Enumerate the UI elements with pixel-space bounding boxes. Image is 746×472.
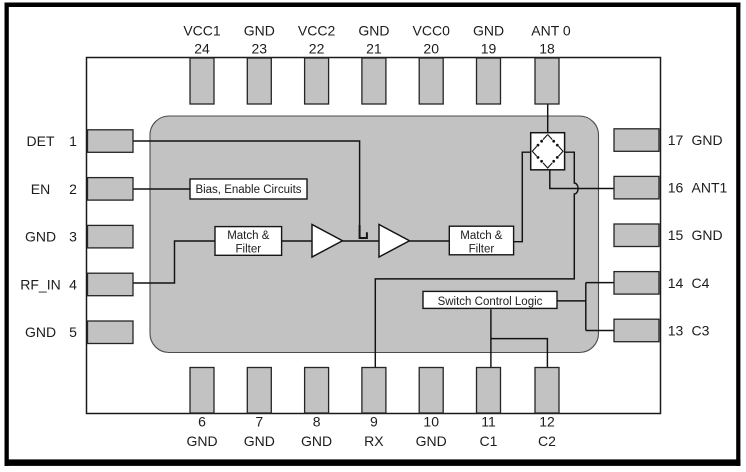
svg-text:23: 23 xyxy=(252,41,268,57)
svg-text:Match &: Match & xyxy=(227,230,270,242)
pin 10 (GND) xyxy=(416,368,447,450)
svg-text:GND: GND xyxy=(25,324,56,340)
svg-text:C3: C3 xyxy=(692,322,710,338)
svg-text:20: 20 xyxy=(423,41,439,57)
svg-text:C2: C2 xyxy=(538,433,556,449)
pin 11 (C1) xyxy=(477,368,501,450)
svg-text:19: 19 xyxy=(481,41,497,57)
svg-text:10: 10 xyxy=(423,414,439,430)
wire: EN pin2 to bias block xyxy=(134,188,191,190)
svg-text:GND: GND xyxy=(244,433,275,449)
svg-text:3: 3 xyxy=(69,229,77,245)
wire: ANT0 pin18 to switch top port xyxy=(547,105,549,133)
wire: branch to pin 12 xyxy=(491,339,548,368)
svg-text:Filter: Filter xyxy=(469,243,495,255)
svg-text:GND: GND xyxy=(25,229,56,245)
svg-text:RF_IN: RF_IN xyxy=(20,276,60,292)
svg-text:ANT1: ANT1 xyxy=(692,180,728,196)
svg-text:7: 7 xyxy=(255,414,263,430)
block: input Match &amp; Filter xyxy=(215,227,282,256)
pin 21 (GND) xyxy=(358,22,389,104)
svg-text:24: 24 xyxy=(194,41,210,57)
wire: switch right port to RX pin9 (jogs over ANT1 wire) xyxy=(375,152,578,367)
wire: DET pin1 to coupler tap xyxy=(134,141,360,225)
svg-text:VCC2: VCC2 xyxy=(298,22,336,38)
pin 22 (VCC2) xyxy=(298,22,336,104)
pin 7 (GND) xyxy=(244,368,275,450)
block: Bias, Enable Circuits xyxy=(190,179,307,199)
wire: switch control logic to pin 11 xyxy=(490,309,492,367)
svg-text:DET: DET xyxy=(27,133,55,149)
svg-text:21: 21 xyxy=(366,41,382,57)
svg-text:22: 22 xyxy=(309,41,325,57)
svg-text:GND: GND xyxy=(416,433,447,449)
pin 14 (C4) xyxy=(614,272,710,295)
svg-text:9: 9 xyxy=(370,414,378,430)
coupler tap at interstage node xyxy=(360,225,367,238)
svg-text:18: 18 xyxy=(539,41,555,57)
wire: A1 to A2 interstage xyxy=(343,240,380,242)
svg-text:GND: GND xyxy=(692,227,723,243)
pin 17 (GND) xyxy=(614,129,723,152)
svg-text:Filter: Filter xyxy=(236,243,262,255)
svg-text:17: 17 xyxy=(668,132,684,148)
svg-text:6: 6 xyxy=(198,414,206,430)
svg-text:C1: C1 xyxy=(480,433,498,449)
svg-text:4: 4 xyxy=(69,276,77,292)
svg-text:Switch Control Logic: Switch Control Logic xyxy=(438,296,543,308)
pin 24 (VCC1) xyxy=(183,22,221,104)
pin 20 (VCC0) xyxy=(413,22,451,104)
svg-text:13: 13 xyxy=(668,322,684,338)
svg-text:16: 16 xyxy=(668,180,684,196)
pin 13 (C3) xyxy=(614,319,710,342)
package outline U1 xyxy=(87,58,661,414)
svg-text:12: 12 xyxy=(539,414,555,430)
svg-text:8: 8 xyxy=(313,414,321,430)
svg-text:ANT 0: ANT 0 xyxy=(531,22,571,38)
pin 8 (GND) xyxy=(301,368,332,450)
pin 4 (RF_IN) xyxy=(20,273,133,296)
pin 23 (GND) xyxy=(244,22,275,104)
block: Switch Control Logic xyxy=(423,291,557,308)
switch SW1 (antenna switch matrix) xyxy=(531,133,565,170)
pin 15 (GND) xyxy=(614,224,723,247)
svg-text:15: 15 xyxy=(668,227,684,243)
svg-text:GND: GND xyxy=(186,433,217,449)
svg-text:1: 1 xyxy=(69,133,77,149)
pin 1 (DET) xyxy=(27,130,134,153)
svg-text:Bias, Enable Circuits: Bias, Enable Circuits xyxy=(195,184,301,196)
svg-text:GND: GND xyxy=(301,433,332,449)
svg-text:2: 2 xyxy=(69,181,77,197)
pin 12 (C2) xyxy=(535,368,559,450)
svg-text:5: 5 xyxy=(69,324,77,340)
svg-text:14: 14 xyxy=(668,275,684,291)
pin 2 (EN) xyxy=(31,178,133,201)
svg-text:11: 11 xyxy=(481,414,496,430)
pin 16 (ANT1) xyxy=(614,176,728,199)
wire: match/filter to amplifier A1 xyxy=(282,240,312,242)
die xyxy=(150,116,599,353)
svg-text:RX: RX xyxy=(364,433,384,449)
svg-text:EN: EN xyxy=(31,181,50,197)
svg-text:VCC1: VCC1 xyxy=(183,22,221,38)
amplifier A1 xyxy=(312,225,343,258)
svg-text:GND: GND xyxy=(358,22,389,38)
pin 19 (GND) xyxy=(473,22,504,104)
pin 9 (RX) xyxy=(362,368,386,450)
pin 5 (GND) xyxy=(25,321,133,344)
wire: switch control logic to pins 14 and 13 xyxy=(556,283,614,331)
svg-text:C4: C4 xyxy=(692,275,710,291)
svg-text:GND: GND xyxy=(244,22,275,38)
svg-text:VCC0: VCC0 xyxy=(413,22,451,38)
wire: RF_IN pin4 to input match/filter xyxy=(134,241,216,283)
svg-text:Match &: Match & xyxy=(460,230,503,242)
wire: switch bottom port to ANT1 pin16 xyxy=(550,170,614,189)
svg-text:GND: GND xyxy=(692,132,723,148)
svg-text:GND: GND xyxy=(473,22,504,38)
pin 6 (GND) xyxy=(186,368,217,450)
pin 18 (ANT 0) xyxy=(531,22,571,104)
wire: A2 to output match/filter xyxy=(410,240,450,242)
amplifier A2 xyxy=(379,225,410,258)
pin 3 (GND) xyxy=(25,225,133,248)
wire: output match/filter to switch left port xyxy=(514,152,531,242)
block: output Match &amp; Filter xyxy=(449,226,513,255)
